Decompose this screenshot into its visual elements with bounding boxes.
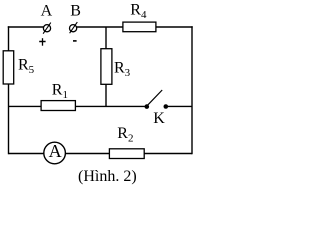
terminal B (circle with slash) — [70, 25, 77, 32]
minus sign — [73, 40, 77, 42]
wire: R3 branch vertical from top wire to middle row — [105, 27, 107, 107]
resistor R4 — [123, 22, 156, 32]
wire: top horizontal from terminal B to right rail — [77, 26, 193, 28]
wire: right vertical rail — [191, 26, 193, 154]
wire: top-left horizontal from left rail to terminal A — [8, 26, 44, 28]
wire: left vertical rail — [8, 26, 10, 154]
switch K contact dots — [145, 104, 150, 109]
ammeter A — [44, 142, 66, 164]
svg-text:A: A — [41, 3, 53, 20]
resistor R2 — [109, 149, 144, 159]
resistor R1 — [41, 101, 75, 111]
plus sign — [39, 41, 45, 43]
resistor R3 — [101, 49, 112, 85]
terminal A (circle with slash) — [43, 25, 50, 32]
wire: bottom row horizontal — [9, 153, 193, 155]
svg-text:A: A — [49, 141, 62, 161]
wire: middle row horizontal (left rail to switch left contact) — [9, 105, 147, 107]
svg-text:(Hình. 2): (Hình. 2) — [78, 168, 137, 185]
svg-text:K: K — [153, 110, 165, 127]
wire: middle row horizontal (switch right contact to right rail) — [166, 105, 192, 107]
svg-text:B: B — [70, 3, 81, 20]
switch K blade — [148, 90, 163, 105]
resistor R5 — [3, 51, 14, 84]
